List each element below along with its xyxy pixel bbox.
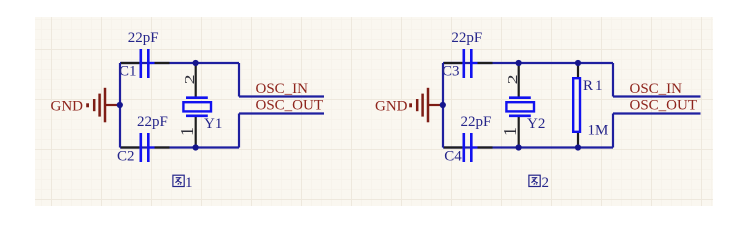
svg-text:GND: GND xyxy=(375,99,408,115)
svg-text:OSC_IN: OSC_IN xyxy=(256,81,309,97)
wire OSC_IN net xyxy=(239,95,324,97)
wire right vertical to OSC_IN xyxy=(612,63,614,97)
crystal Y2 xyxy=(506,63,534,148)
junction GND-right rail xyxy=(440,102,446,108)
junction top of Y2 xyxy=(516,60,522,66)
capacitor C1 xyxy=(121,49,170,78)
svg-text:22pF: 22pF xyxy=(128,30,159,46)
junction top of Y1 xyxy=(193,60,199,66)
wire top rail xyxy=(120,62,239,64)
svg-text:1: 1 xyxy=(185,175,193,191)
wire right vertical from OSC_OUT xyxy=(238,114,240,148)
svg-text:OSC_OUT: OSC_OUT xyxy=(256,98,324,114)
wire left rail xyxy=(119,63,121,148)
wire left rail xyxy=(442,63,444,148)
svg-text:2: 2 xyxy=(542,175,550,191)
svg-text:GND: GND xyxy=(51,99,84,115)
wire OSC_OUT net xyxy=(613,112,701,114)
wire bottom rail xyxy=(120,146,239,148)
svg-text:22pF: 22pF xyxy=(137,114,168,130)
svg-text:OSC_OUT: OSC_OUT xyxy=(630,98,698,114)
svg-text:Y2: Y2 xyxy=(527,116,545,132)
svg-text:OSC_IN: OSC_IN xyxy=(630,81,683,97)
svg-text:2: 2 xyxy=(506,74,521,84)
junction bottom of Y2 xyxy=(516,144,522,150)
svg-text:2: 2 xyxy=(183,74,198,84)
svg-text:C4: C4 xyxy=(444,149,462,165)
wire right vertical to OSC_IN xyxy=(238,63,240,97)
wire top rail xyxy=(443,62,613,64)
junction bottom of R1 xyxy=(575,144,581,150)
capacitor C3 xyxy=(444,49,493,78)
caption 图1 xyxy=(173,175,193,191)
svg-text:R1: R1 xyxy=(583,78,605,94)
svg-text:1: 1 xyxy=(177,127,197,136)
junction GND-left rail xyxy=(117,102,123,108)
resistor R1 xyxy=(573,63,580,148)
junction top of R1 xyxy=(575,60,581,66)
wire right vertical from OSC_OUT xyxy=(612,114,614,148)
capacitor C2 xyxy=(121,133,170,162)
svg-text:22pF: 22pF xyxy=(461,114,492,130)
svg-text:22pF: 22pF xyxy=(451,30,482,46)
crystal Y1 xyxy=(183,63,211,148)
svg-text:1: 1 xyxy=(500,127,520,136)
wire bottom rail xyxy=(443,146,613,148)
svg-text:C3: C3 xyxy=(442,63,460,79)
power port GND (left) xyxy=(88,88,120,123)
power port GND (right) xyxy=(411,88,443,123)
caption 图2 xyxy=(529,175,549,191)
svg-text:Y1: Y1 xyxy=(204,116,222,132)
junction bottom of Y1 xyxy=(193,144,199,150)
svg-text:C1: C1 xyxy=(119,63,137,79)
wire OSC_OUT net xyxy=(239,112,324,114)
svg-text:1M: 1M xyxy=(588,123,609,139)
wire OSC_IN net xyxy=(613,95,701,97)
svg-text:C2: C2 xyxy=(117,149,135,165)
capacitor C4 xyxy=(444,133,493,162)
